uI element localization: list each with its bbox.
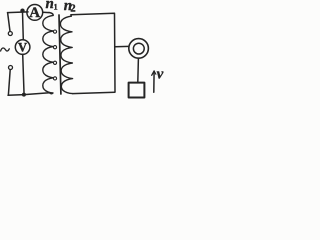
svg-text:v: v	[157, 67, 164, 83]
svg-text:n: n	[46, 0, 54, 12]
svg-text:1: 1	[54, 2, 58, 11]
svg-text:A: A	[29, 5, 40, 21]
svg-text:V: V	[18, 41, 27, 55]
svg-text:2: 2	[70, 4, 75, 15]
